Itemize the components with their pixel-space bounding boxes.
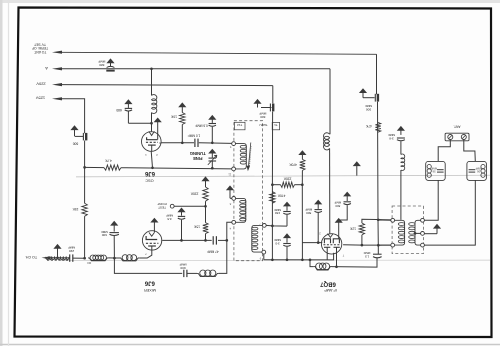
- svg-text:IF AMP: IF AMP: [324, 288, 337, 292]
- svg-text:680: 680: [99, 63, 104, 67]
- node A (input arrow): [52, 67, 62, 70]
- svg-text:4.7K: 4.7K: [104, 159, 112, 163]
- svg-text:6J6: 6J6: [144, 279, 155, 285]
- wire: T2 primary to antenna line: [378, 219, 391, 221]
- svg-text:ANT.: ANT.: [453, 124, 460, 128]
- svg-text:125V: 125V: [35, 95, 45, 100]
- svg-text:TERM. OF: TERM. OF: [32, 46, 48, 50]
- svg-text:15K: 15K: [72, 207, 79, 211]
- svg-text:A: A: [45, 66, 48, 71]
- wire: antenna line vertical drop at right: [376, 54, 378, 94]
- capacitor C feedthrough 600 on 125V line: [75, 135, 84, 137]
- svg-text:680: 680: [116, 108, 122, 112]
- capacitor 1.5 MMF series into antenna line: [373, 253, 382, 255]
- transformer T1 winding 1 (osc tank): [232, 142, 236, 146]
- transformer T1 winding 3 (IF secondary): [262, 224, 266, 228]
- wire: osc grid entry: [151, 123, 153, 131]
- svg-text:220: 220: [69, 249, 74, 253]
- wire: 125V line down left side: [61, 99, 85, 133]
- tube V2 6J6 mixer: [142, 231, 161, 250]
- wire: osc plate output line: [161, 142, 194, 144]
- tube V3 6BQ7 IF amplifier: [321, 234, 341, 254]
- capacitor 220 MMF series in channel line: [69, 254, 71, 261]
- capacitor 600 MMF series in trap loop: [183, 270, 185, 277]
- capacitor 3-5 MMF to ground (lower): [283, 233, 291, 238]
- capacitor C feedthrough 680MMF on A line: [106, 58, 114, 63]
- capacitor 0.6 MMF to ground: [208, 115, 216, 120]
- svg-text:3-5: 3-5: [167, 217, 172, 221]
- wire: IF output lower loop: [310, 260, 314, 267]
- wire: lower crease line: [60, 259, 490, 261]
- svg-text:3-8: 3-8: [389, 137, 394, 141]
- wire: 6BQ7 cathode to left rail: [302, 242, 322, 244]
- antenna coil box left: [426, 161, 446, 180]
- label: T4 THRU T1 boxes: [234, 122, 245, 130]
- tuning slug arrow through winding 1: [249, 143, 251, 167]
- capacitor: FINE TUNING variable: [208, 149, 216, 154]
- resistor 4.7K in fine-tuning line: [104, 165, 121, 170]
- tube V1 6J6 oscillator: [142, 132, 162, 152]
- wire: osc cathode to fine-tuning line: [151, 151, 152, 168]
- wire: coil to antenna line: [332, 258, 378, 268]
- wire: fine tuning line B: [85, 166, 104, 168]
- svg-text:220K: 220K: [190, 192, 199, 196]
- junction: osc grid cap node: [150, 122, 153, 125]
- capacitor 47 MMF series mixer output: [212, 236, 214, 244]
- junction: A line to osc plate coil: [150, 67, 153, 70]
- ground: 6BQ7 cathode (into tube): [335, 218, 343, 223]
- node 220V (input arrow): [52, 83, 62, 86]
- junction: trap loop tap: [113, 257, 116, 260]
- capacitor 800 MMF screen bypass: [343, 192, 351, 197]
- ground: on channel line: [53, 244, 61, 249]
- svg-text:MIXER: MIXER: [144, 288, 156, 292]
- ground: near antenna line base: [353, 161, 361, 166]
- wire: right rail down to cathode and bus: [301, 185, 303, 260]
- svg-text:0.6 MMF: 0.6 MMF: [195, 124, 208, 128]
- capacitor 1.0 MMF series in osc output: [194, 139, 196, 147]
- svg-text:TV SET: TV SET: [34, 43, 46, 47]
- capacitor 150 MMF IF grid to ground: [283, 202, 291, 207]
- svg-text:150: 150: [275, 211, 280, 215]
- wire: ground bus under IF amp: [264, 259, 334, 261]
- wire: A line to 6BQ7 grid: [61, 68, 330, 70]
- resistor 220K mixer divider upper: [201, 176, 209, 181]
- wire: trap loop down-left: [114, 258, 182, 273]
- wire: right ANT terminal to coil box: [464, 140, 476, 162]
- resistor 220K horizontal between rails: [281, 182, 295, 187]
- wire: long horizontal AGC bus / crease line: [76, 175, 490, 177]
- svg-text:11: 11: [228, 173, 231, 177]
- svg-text:TO ANT.: TO ANT.: [34, 50, 47, 54]
- capacitor 600 channel line to ground: [110, 221, 118, 226]
- wire: channel line with shielded section: [50, 257, 70, 259]
- svg-text:220V: 220V: [36, 82, 46, 87]
- svg-text:500: 500: [366, 108, 371, 112]
- svg-text:FINE: FINE: [193, 156, 203, 161]
- svg-text:OSC: OSC: [145, 178, 153, 182]
- capacitor 3-5 MMF mixer plate to ground: [177, 208, 185, 213]
- ground: osc plate return top-right: [154, 118, 162, 123]
- svg-text:600: 600: [73, 142, 79, 146]
- svg-text:600: 600: [180, 266, 185, 270]
- transformer T2 primary winding: [391, 218, 395, 222]
- svg-text:TUNING: TUNING: [190, 151, 206, 156]
- resistor 15K mixer divider lower: [203, 223, 208, 234]
- junction: 125V chain meets channel line: [83, 257, 86, 260]
- node: TEST POINT: [170, 204, 174, 208]
- wire: winding 3 bottom to ground bus: [263, 254, 265, 260]
- wire: winding 3 top to IF grid node: [266, 224, 287, 227]
- transformer T1 shield (dashed box): [234, 121, 263, 261]
- resistor 47K in antenna line: [375, 122, 380, 132]
- resistor 470K with ground (right rail top): [298, 150, 306, 155]
- svg-text:MMF: MMF: [259, 112, 266, 116]
- inductor L channel coil 1: [88, 258, 109, 261]
- resistor 10K osc plate to ground: [178, 102, 186, 107]
- svg-text:TO CH.: TO CH.: [25, 255, 37, 259]
- svg-text:12K: 12K: [349, 227, 356, 231]
- wire: 220V line: [61, 85, 273, 86]
- node: TO ANT TERM OF TV SET (output arrow): [52, 51, 62, 54]
- svg-text:6J6: 6J6: [144, 170, 155, 176]
- svg-text:470K: 470K: [277, 194, 286, 198]
- transformer T1 winding 2 (mixer plate): [232, 197, 236, 201]
- svg-text:1.5: 1.5: [365, 255, 370, 259]
- wire: T2 secondary top to left ant coil: [424, 181, 438, 221]
- inductor: antenna coupling coil: [401, 154, 405, 170]
- antenna coil box right: [467, 161, 487, 180]
- ground: mixer grid: [150, 218, 158, 223]
- inductor L channel coil 2: [114, 257, 119, 259]
- svg-text:3-5: 3-5: [275, 241, 280, 245]
- svg-text:47 MMF: 47 MMF: [207, 249, 219, 253]
- svg-text:600: 600: [260, 115, 265, 119]
- wire: 6BQ7 center pin to bus: [333, 253, 335, 260]
- wire: left ANT terminal to coil box: [438, 140, 450, 162]
- transformer T2 secondary winding: [421, 218, 425, 222]
- ground: winding 2 top return: [226, 185, 234, 190]
- wire: 6BQ7 plate to output transformer: [343, 244, 362, 246]
- node: TO CH. (channel strip arrow): [42, 256, 51, 259]
- svg-text:MC: MC: [87, 261, 92, 265]
- svg-text:10K: 10K: [170, 115, 177, 119]
- resistor 12K IF plate load: [362, 219, 393, 223]
- svg-text:T12: T12: [237, 123, 243, 127]
- node 125V (input arrow): [52, 97, 62, 100]
- transformer T2 center tap to ground: [421, 232, 425, 236]
- inductor: IF output coupling coil: [314, 267, 332, 270]
- capacitor 500 MMF cathode bypass: [314, 200, 322, 205]
- capacitor 3-8 MMF antenna trimmer chain: [397, 126, 405, 131]
- capacitor 680 osc grid to ground: [128, 122, 151, 124]
- wire: mixer cathode to channel coils: [139, 246, 152, 258]
- resistor 15K on 125V dropping line: [82, 203, 87, 216]
- svg-text:220K: 220K: [283, 177, 292, 181]
- svg-text:500: 500: [306, 211, 311, 215]
- inductor: 6BQ7 grid peaking coil: [324, 133, 330, 150]
- svg-text:470K: 470K: [289, 163, 298, 167]
- resistor 470K on 220V rail: [270, 192, 275, 204]
- svg-text:THRU: THRU: [259, 123, 267, 127]
- inductor: oscillator plate coil: [152, 95, 157, 114]
- svg-text:600: 600: [101, 233, 106, 237]
- node: ANT terminal strip: [445, 133, 469, 141]
- transformer T2 balun shield (dashed box): [392, 206, 423, 254]
- wire: T2 secondary bottom to right ant coil: [424, 181, 475, 246]
- svg-text:T1: T1: [274, 123, 278, 127]
- svg-text:1.0 MMF: 1.0 MMF: [188, 133, 201, 137]
- svg-text:15K: 15K: [193, 224, 200, 228]
- wire: 6BQ7 second cathode pin down: [336, 248, 338, 267]
- svg-text:6BQ7: 6BQ7: [320, 280, 336, 286]
- svg-text:MMF: MMF: [68, 246, 75, 250]
- svg-text:800: 800: [335, 204, 340, 208]
- capacitor C feedthrough 600MMF on 220V line: [261, 107, 272, 109]
- capacitor C feedthrough 500MMF on antenna line: [363, 97, 375, 99]
- svg-text:MMF: MMF: [166, 214, 173, 218]
- inductor L trap coil: [187, 272, 197, 274]
- wire: mixer plate line: [162, 239, 212, 241]
- wire: antenna line from TO-ANT arrow along top: [61, 52, 377, 54]
- svg-text:TEST: TEST: [158, 205, 166, 209]
- svg-text:47K: 47K: [365, 124, 372, 128]
- wire: oscillator plate lead from A line: [151, 69, 153, 96]
